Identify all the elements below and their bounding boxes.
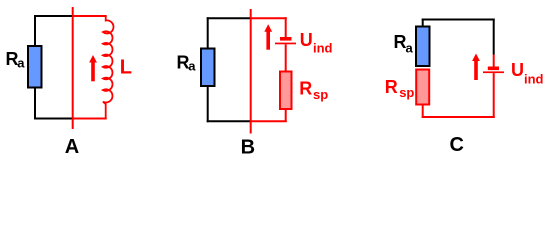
svg-text:L: L bbox=[120, 57, 132, 79]
wire B left bbox=[207, 17, 209, 122]
wire B bottom (red segment) bbox=[251, 120, 287, 122]
terminal boundary line B (red) bbox=[250, 9, 252, 134]
wire C left (resistor Rsp to bottom corner, red) bbox=[422, 105, 424, 118]
resistor Ra (circuit A) bbox=[28, 46, 42, 88]
svg-text:B: B bbox=[241, 136, 255, 158]
wire A bottom (red segment) bbox=[73, 118, 107, 120]
wire C right (red segment to battery) bbox=[493, 55, 495, 67]
current arrow B (up) bbox=[264, 24, 272, 50]
voltage source Uind (circuit B): short thick plate bbox=[280, 37, 292, 41]
label A bbox=[65, 136, 79, 158]
current arrow C (up) bbox=[472, 54, 480, 81]
wire B right (resistor Rsp to bottom) bbox=[285, 109, 287, 122]
wire B bottom (black segment) bbox=[207, 120, 251, 122]
wire A top (black segment) bbox=[34, 15, 73, 17]
wire B right (battery to resistor Rsp) bbox=[285, 44, 287, 71]
svg-text:a: a bbox=[406, 41, 414, 56]
wire C top bbox=[422, 19, 495, 21]
voltage source Uind (circuit B): long thin plate bbox=[275, 43, 296, 45]
label L bbox=[120, 57, 132, 79]
label Rsp (circuit C) bbox=[385, 77, 415, 100]
resistor Ra (circuit B) bbox=[201, 49, 215, 87]
wire C bottom (red) bbox=[422, 116, 495, 118]
current arrow A (up) bbox=[89, 55, 97, 81]
voltage source Uind (circuit C): short thick plate bbox=[488, 67, 499, 71]
wire A left bbox=[34, 15, 36, 120]
label C bbox=[450, 134, 464, 156]
svg-text:a: a bbox=[188, 59, 196, 74]
wire C left (top corner to resistor Ra) bbox=[422, 19, 424, 27]
voltage source Uind (circuit C): long thin plate bbox=[483, 71, 504, 73]
wire B top (red segment) bbox=[251, 17, 287, 19]
label Uind (circuit C) bbox=[511, 60, 544, 87]
wire B top (black segment) bbox=[207, 17, 251, 19]
svg-text:C: C bbox=[450, 134, 464, 156]
svg-text:a: a bbox=[17, 56, 25, 71]
wire C right (battery to bottom corner, red) bbox=[493, 73, 495, 118]
svg-text:U: U bbox=[300, 30, 313, 50]
label Uind (circuit B) bbox=[300, 30, 333, 56]
svg-text:sp: sp bbox=[313, 87, 328, 102]
svg-text:R: R bbox=[299, 79, 312, 99]
resistor Ra (circuit C) bbox=[416, 27, 430, 67]
label Ra (circuit A) bbox=[6, 49, 26, 70]
label B bbox=[241, 136, 255, 158]
label Ra (circuit B) bbox=[177, 52, 197, 73]
svg-text:ind: ind bbox=[313, 41, 333, 56]
svg-text:sp: sp bbox=[399, 85, 414, 100]
terminal boundary line A (red) bbox=[72, 7, 74, 129]
label Rsp (circuit B) bbox=[299, 79, 328, 103]
resistor Rsp (circuit C) bbox=[416, 70, 429, 105]
inductor L coil bbox=[103, 16, 114, 120]
wire A top (red segment) bbox=[73, 15, 107, 17]
svg-text:U: U bbox=[511, 60, 524, 80]
wire A bottom (black segment) bbox=[34, 118, 73, 120]
svg-text:R: R bbox=[385, 77, 398, 97]
wire C right (black upper segment) bbox=[493, 19, 495, 55]
svg-text:A: A bbox=[65, 136, 79, 158]
svg-text:ind: ind bbox=[524, 72, 544, 87]
label Ra (circuit C) bbox=[394, 32, 414, 55]
resistor Rsp (circuit B) bbox=[280, 72, 292, 110]
wire B right (top, to battery) bbox=[285, 17, 287, 37]
